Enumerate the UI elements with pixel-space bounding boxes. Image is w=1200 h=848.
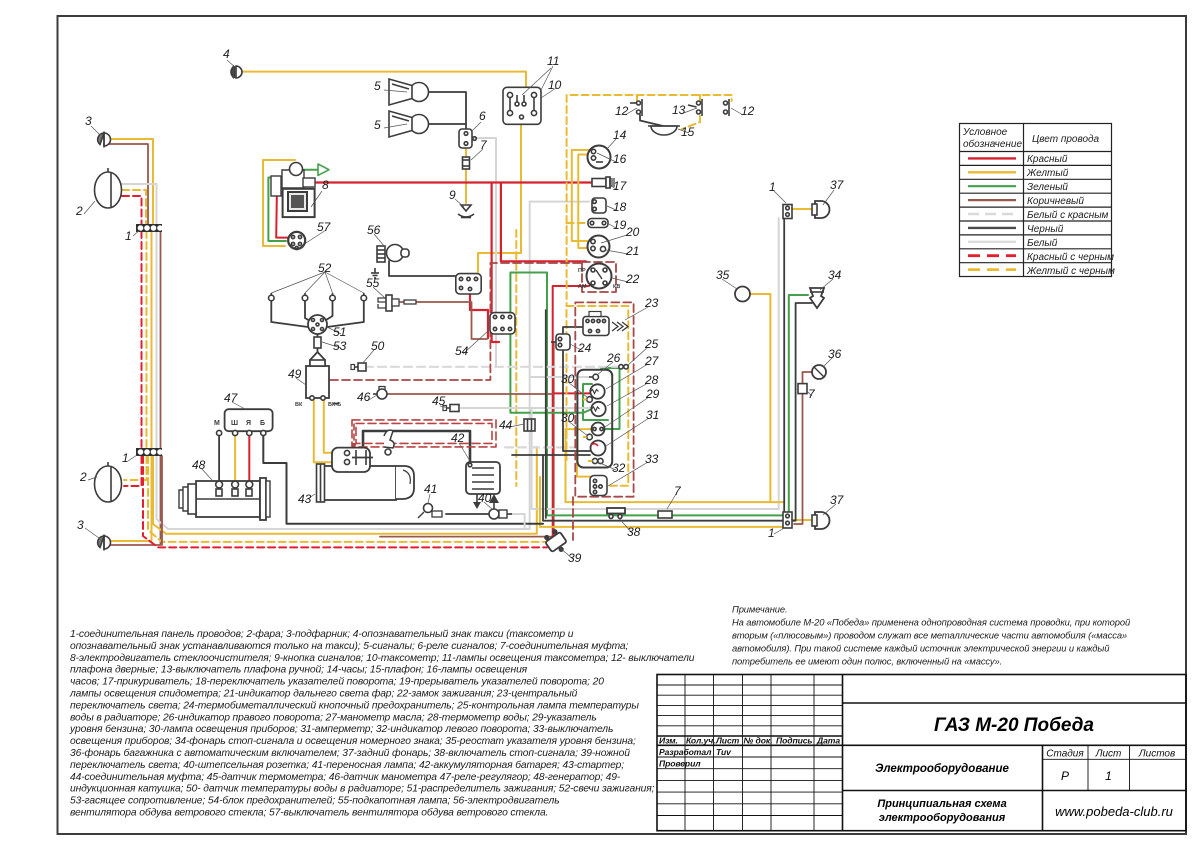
- svg-text:53-гасящее сопротивление; 54-б: 53-гасящее сопротивление; 54-блок предох…: [70, 795, 560, 807]
- legend sample: white: [968, 241, 1016, 243]
- wire: white riser to rear top connector 1: [532, 218, 779, 509]
- svg-text:21: 21: [625, 244, 639, 258]
- wire: yellow from lamp 4 to taximeter 10: [240, 72, 526, 88]
- svg-text:3: 3: [85, 114, 92, 128]
- svg-text:Красный: Красный: [1027, 154, 1068, 165]
- svg-text:Цвет провода: Цвет провода: [1032, 134, 1100, 145]
- clock 14 with lamps 16: [588, 146, 611, 169]
- wire: green arrow from wiper motor 8: [303, 169, 318, 171]
- wire: black from rear top connector 1 down to rear bottom connector: [783, 219, 785, 511]
- svg-text:33: 33: [645, 452, 659, 466]
- wire: white-red dash from water sender 50 to lamp 25: [365, 366, 619, 368]
- wire: yellow-dash bottom loom to foot switch 39: [148, 456, 545, 542]
- water temp gauge 28: [591, 402, 605, 416]
- wire: yellow-dash connector 1 to lower headlamp 2: [124, 456, 147, 480]
- svg-text:12: 12: [615, 104, 629, 118]
- headlamp 2 top: [95, 168, 122, 208]
- svg-text:переключатель света; 40-штепсе: переключатель света; 40-штепсельная розе…: [70, 759, 624, 771]
- svg-text:36-фонарь багажника с автомати: 36-фонарь багажника с автоматическим вкл…: [70, 747, 630, 759]
- svg-text:26: 26: [606, 351, 621, 365]
- svg-text:Желтый с черным: Желтый с черным: [1026, 266, 1115, 277]
- svg-text:51: 51: [333, 325, 346, 339]
- parking lamp 3 bottom: [98, 535, 111, 551]
- svg-text:Примечание.: Примечание.: [732, 604, 788, 615]
- svg-text:Кол.уч.: Кол.уч.: [686, 736, 715, 746]
- wire: yellow wiper motor 8 loop to switch 57: [263, 160, 295, 246]
- svg-text:12: 12: [741, 104, 755, 118]
- svg-text:опознавательный знак устанавли: опознавательный знак устанавливаются тол…: [70, 640, 629, 652]
- legend sample: white-red dashed: [968, 213, 1016, 215]
- wire: red riser x491.6 to fuse block 54: [492, 183, 499, 343]
- svg-text:46: 46: [357, 390, 371, 404]
- svg-text:47: 47: [224, 391, 239, 405]
- svg-text:Принципиальная схема: Принципиальная схема: [877, 798, 1006, 810]
- svg-text:переключатель света; 24-термоб: переключатель света; 24-термобиметалличе…: [70, 699, 639, 711]
- svg-text:индукционная катушка; 50- датч: индукционная катушка; 50- датчик темпера…: [70, 784, 655, 795]
- svg-text:ГАЗ М-20 Победа: ГАЗ М-20 Победа: [934, 715, 1094, 736]
- wire: yellow from fuel rheostat 35 down to rear loom: [750, 294, 770, 502]
- svg-text:49: 49: [288, 367, 302, 381]
- instrument cluster body: [577, 370, 612, 468]
- speedometer lamps 20 21: [588, 236, 610, 258]
- wire: white from relay 6 to turn switch 18: [473, 138, 496, 367]
- wire: black from fuse 24 to ammeter 31: [563, 350, 590, 451]
- panel light switch 33: [590, 476, 607, 496]
- svg-text:37: 37: [830, 493, 845, 507]
- svg-text:38: 38: [627, 525, 641, 539]
- wire: white headlamp 2 to connector 1: [122, 184, 157, 225]
- wire: green wiper motor 8 to switch 57: [268, 178, 287, 242]
- coupling 44: [524, 419, 535, 431]
- legend sample: red-black dashed: [968, 254, 1016, 257]
- parking lamp 3 top: [98, 132, 111, 148]
- regulator 47: [214, 409, 273, 435]
- wire: yellow relay 6 to fuse 7 to button 9: [465, 146, 467, 158]
- wire: yellow fuse 7 to horn button 9: [465, 168, 467, 203]
- wire: green from fuse block 54 bottom to gauges: [510, 334, 592, 413]
- legend table: wire colour legend: [960, 124, 1116, 278]
- foot switch 39: [542, 527, 570, 556]
- svg-text:43: 43: [298, 492, 312, 506]
- wire: enclosure dash instrument panel: [575, 302, 633, 496]
- wire: yellow coil 49 VKB to starter solenoid: [324, 399, 344, 453]
- svg-text:Изм.: Изм.: [659, 736, 678, 746]
- svg-text:15: 15: [681, 125, 695, 139]
- svg-text:ПР: ПР: [578, 268, 586, 274]
- wire: black from regulator 47 B to chassis loom: [263, 434, 543, 524]
- wire: brown connector 1 to lower parking lamp 3: [109, 456, 161, 545]
- svg-text:16: 16: [613, 152, 627, 166]
- wire: yellow lower loom to rear connector 1: [540, 477, 784, 527]
- wire: yellow coil 49 to starter solenoid: [314, 399, 344, 462]
- svg-text:1: 1: [769, 180, 776, 194]
- svg-text:электрооборудования: электрооборудования: [879, 812, 1006, 824]
- svg-text:50: 50: [371, 339, 385, 353]
- svg-text:30: 30: [561, 411, 575, 425]
- svg-text:41: 41: [424, 482, 437, 496]
- wire: white riser to turn switch 18: [530, 201, 589, 203]
- svg-text:Черный: Черный: [1027, 224, 1064, 235]
- ground arrow at battery 42: [473, 494, 481, 509]
- wire: brown fuse 7 to rear connector 1: [794, 393, 803, 524]
- dome lamp 15: [648, 126, 680, 135]
- tail lamp 37 bottom: [812, 512, 830, 529]
- stop switch 38: [607, 508, 625, 519]
- svg-text:56: 56: [367, 223, 381, 237]
- turn lamp 32: [588, 458, 603, 463]
- svg-text:13: 13: [672, 103, 686, 117]
- stop lamp 34: [810, 288, 824, 308]
- ammeter 31: [591, 441, 606, 456]
- svg-text:55: 55: [366, 276, 380, 290]
- tail lamp 37 top: [812, 201, 830, 218]
- portable lamp 41: [418, 504, 442, 519]
- generator 48: [179, 478, 270, 520]
- svg-text:часов; 17-прикуриватель; 18-пе: часов; 17-прикуриватель; 18-переключател…: [70, 677, 604, 688]
- svg-text:44-соединительная муфта; 45-да: 44-соединительная муфта; 45-датчик термо…: [70, 771, 621, 783]
- svg-text:Желтый: Желтый: [1026, 168, 1069, 179]
- legend sample: red: [968, 157, 1016, 159]
- svg-text:№ док.: № док.: [744, 736, 773, 746]
- starter 43: [317, 430, 415, 502]
- temp sender 45: [443, 405, 459, 412]
- fuel rheostat 35: [735, 287, 750, 302]
- svg-text:5: 5: [374, 79, 381, 93]
- wire: yellow-dash from flasher 19 down to switch 23 box: [566, 226, 568, 306]
- water temp sender 50: [351, 363, 366, 371]
- wire: yellow-dash headlamp 2 to connector 1: [122, 190, 146, 225]
- wire: left loom yellow-dash vertical: [146, 231, 148, 450]
- fuse 7: horn fuse: [463, 157, 470, 169]
- svg-text:18: 18: [613, 200, 627, 214]
- hood lamp 55: [378, 295, 416, 311]
- oil gauge 27: [590, 384, 604, 398]
- wire: yellow-dash roof loom to door switches 12 13: [567, 95, 732, 223]
- svg-text:освещения приборов; 34-фонарь: освещения приборов; 34-фонарь стоп-сигна…: [70, 735, 636, 747]
- wire: black fan motor 56 to junction box 54u: [389, 261, 456, 276]
- svg-text:Зеленый: Зеленый: [1027, 182, 1068, 193]
- fuse 7 on stop lamp line: [658, 511, 672, 518]
- ignition coil 49: [295, 360, 341, 408]
- svg-text:57: 57: [317, 220, 332, 234]
- wire: yellow-dash riser x516.3: [515, 230, 517, 486]
- svg-text:1: 1: [1105, 769, 1112, 783]
- svg-text:Я: Я: [246, 420, 251, 427]
- wire: red-dash engine compartment box outer: [352, 420, 496, 447]
- svg-text:52: 52: [318, 261, 332, 275]
- wire: red-dash drop into starter solenoid: [353, 424, 355, 444]
- wire: red-dash headlamp 2 to connector 1: [122, 196, 142, 225]
- switch 57: wiper switch: [288, 232, 305, 250]
- light switch 23: [583, 312, 628, 336]
- svg-text:8: 8: [322, 178, 329, 192]
- wire: white bottom loom to riser: [157, 202, 530, 529]
- door switch 12 left: [630, 99, 642, 116]
- svg-text:40: 40: [478, 491, 492, 505]
- taximeter 10 with lamps 11: [503, 87, 541, 124]
- parts list text: [69, 628, 695, 819]
- ignition switch 22: [578, 264, 620, 291]
- wire: yellow-dash drops to switches 12 13: [636, 95, 638, 101]
- wire: yellow bracket at switch 33: [577, 429, 592, 477]
- wire: black portable lamp 41 to socket 40: [446, 513, 488, 515]
- svg-text:Стадия: Стадия: [1046, 749, 1084, 760]
- spark plugs 52: [269, 293, 367, 301]
- wiper motor 8: [271, 163, 315, 218]
- legend sample: brown: [968, 199, 1016, 201]
- distributor 51: [308, 315, 327, 334]
- wire: red main from wiper motor 8 to lighter 17: [310, 181, 591, 183]
- svg-text:воды в радиаторе; 26-индикатор: воды в радиаторе; 26-индикатор правого п…: [70, 712, 597, 723]
- wire: green loop fuel gauge 29 to lamp 26: [601, 368, 620, 429]
- svg-text:29: 29: [645, 387, 660, 401]
- horn 5 upper: [389, 79, 429, 105]
- wire: black ammeter 31 to stop lamp 34 via loom: [512, 454, 590, 456]
- svg-text:20: 20: [625, 225, 640, 239]
- svg-text:www.pobeda-club.ru: www.pobeda-club.ru: [1055, 804, 1173, 819]
- wire: yellow clock 14 feed lower to beam lamp 21: [578, 155, 589, 249]
- wire: yellow-dash stub to turn flasher 19: [567, 222, 587, 224]
- wire: red-dash bottom loom to foot switch 39: [143, 456, 547, 547]
- junction box 54u: [456, 274, 481, 294]
- wire: left loom brown vertical: [160, 231, 162, 450]
- svg-text:31: 31: [646, 408, 659, 422]
- svg-text:32: 32: [612, 461, 626, 475]
- svg-text:4: 4: [223, 47, 230, 61]
- svg-text:Лист: Лист: [1095, 749, 1122, 760]
- connector 25: [619, 365, 628, 369]
- button 9: horn button: [458, 205, 474, 218]
- svg-text:Листов: Листов: [1138, 749, 1175, 760]
- wire: white from socket 40 into loom: [510, 514, 525, 529]
- svg-text:Электрооборудование: Электрооборудование: [875, 763, 1009, 775]
- svg-text:2: 2: [75, 204, 83, 218]
- svg-text:24: 24: [577, 341, 592, 355]
- socket 40: [489, 494, 512, 519]
- wire: green bracket loop at oil gauge 27: [583, 384, 608, 420]
- svg-text:Проверил: Проверил: [659, 759, 701, 769]
- wire: black battery 42 to starter 43: [363, 431, 470, 461]
- svg-text:28: 28: [644, 373, 659, 387]
- label 52 leader fan: [271, 272, 325, 293]
- svg-text:34: 34: [828, 268, 842, 282]
- svg-text:9: 9: [449, 188, 456, 202]
- wire: brown from hood lamp 55 to fuse block 54: [399, 302, 487, 339]
- svg-text:53: 53: [333, 339, 347, 353]
- svg-text:Б: Б: [260, 420, 265, 427]
- svg-text:потребитель ее имеют один полю: потребитель ее имеют один полюс, включен…: [732, 656, 1002, 667]
- svg-text:36: 36: [828, 347, 842, 361]
- svg-text:обозначение: обозначение: [963, 138, 1022, 150]
- lamp 4: taxi sign: [231, 66, 242, 78]
- legend sample: yellow-black dashed: [968, 268, 1016, 271]
- wire: white from heat sender 45 to gauge 28: [461, 407, 592, 409]
- svg-text:Белый с красным: Белый с красным: [1027, 210, 1109, 221]
- svg-text:На автомобиле М-20 «Победа» пр: На автомобиле М-20 «Победа» применена од…: [732, 617, 1131, 628]
- fuse 7 rear: [798, 384, 807, 394]
- svg-text:11: 11: [547, 54, 559, 68]
- wire: yellow clock 14 feed upper: [572, 150, 589, 241]
- resistor 53: [314, 337, 321, 348]
- svg-text:Разработал: Разработал: [659, 747, 712, 757]
- legend sample: green: [968, 185, 1016, 187]
- svg-text:1: 1: [768, 526, 775, 540]
- wire: brown trunk lamp 36 to rear connector: [803, 372, 813, 384]
- svg-text:Коричневый: Коричневый: [1027, 196, 1084, 207]
- wire: red from junction 54u down to fuse block 54: [470, 294, 488, 338]
- wire: yellow connector 1 to lower parking lamp 3: [109, 456, 152, 541]
- svg-text:44: 44: [499, 418, 513, 432]
- wire: brown from oil sender 46 to riser: [387, 393, 553, 395]
- svg-text:22: 22: [625, 272, 640, 286]
- connector 1 top left: junction panel: [136, 224, 162, 232]
- svg-text:уровня бензина; 30-лампа освещ: уровня бензина; 30-лампа освещения прибо…: [69, 723, 613, 735]
- door switch 12 right: [724, 99, 730, 116]
- svg-text:5: 5: [374, 118, 381, 132]
- turn switch 18: [592, 198, 606, 213]
- battery 42: [466, 462, 500, 494]
- svg-text:39: 39: [568, 551, 582, 565]
- wire: red branch to oil gauge 27: [553, 392, 591, 394]
- panel lamp 30 upper: [583, 397, 592, 403]
- svg-text:30: 30: [561, 372, 575, 386]
- svg-text:автомобиля). При такой системе: автомобиля). При такой системе каждый ис…: [732, 643, 1110, 654]
- wire: red-dash engine harness to fuse block: [330, 263, 582, 380]
- svg-text:М: М: [214, 420, 220, 427]
- note text: [732, 604, 1131, 667]
- wire: brown bottom loom to foot switch 39: [380, 536, 554, 538]
- svg-text:АМ: АМ: [578, 284, 587, 290]
- fuse block 54: [490, 313, 515, 334]
- wire: yellow bottom loom to riser x536.8: [153, 447, 537, 534]
- wire: yellow riser to rear lamp loom: [566, 429, 785, 502]
- svg-text:Лист: Лист: [715, 736, 740, 746]
- connector 1 rear top: [783, 205, 792, 219]
- wire: yellow regulator 47 Sh to generator 48: [234, 434, 236, 480]
- wire: black door switch 12 to dome lamp 15: [640, 115, 663, 126]
- wire: red regulator 47 Ya to generator 48: [248, 434, 250, 480]
- svg-text:Ш: Ш: [231, 420, 238, 427]
- svg-text:35: 35: [716, 268, 730, 282]
- wire: black regulator 47 M to generator 48: [218, 434, 220, 480]
- wire: red wiper motor 8 to switch 57: [276, 184, 289, 238]
- wire: yellow connector 1 to tail lamp 37 bottom: [793, 519, 812, 521]
- wire: yellow from taximeter 10 down to junction box 54u: [478, 124, 521, 272]
- svg-text:плафона дверные; 13-выключател: плафона дверные; 13-выключатель плафона …: [70, 664, 528, 676]
- wire: left loom white vertical: [156, 231, 158, 450]
- svg-text:3: 3: [77, 518, 84, 532]
- wire: yellow-dash box around switches 23-33: [567, 306, 629, 486]
- wire: left loom red-dash vertical: [141, 231, 143, 450]
- svg-text:Красный с черным: Красный с черным: [1027, 252, 1114, 263]
- svg-text:1: 1: [122, 451, 129, 465]
- wire: red-dash engine compartment box inner: [356, 423, 492, 443]
- svg-text:17: 17: [613, 179, 628, 193]
- fan motor 56: [377, 245, 409, 263]
- wire: left loom yellow vertical: [151, 231, 153, 450]
- svg-text:Tuv: Tuv: [716, 747, 732, 757]
- hand switch 13: [688, 99, 702, 116]
- fuse 24: bimetallic breaker: [551, 334, 570, 350]
- svg-text:45: 45: [432, 394, 446, 408]
- panel lamp 30 lower: [583, 434, 592, 440]
- wire: black switch 23 to fuse 24: [563, 327, 584, 340]
- flasher 19: [588, 219, 608, 228]
- svg-text:Подпись: Подпись: [776, 736, 812, 746]
- fuel gauge 29: [592, 423, 605, 436]
- svg-text:лампы освещения спидометра; 21: лампы освещения спидометра; 21-индикатор…: [69, 688, 578, 700]
- svg-text:вентилятора обдува ветрового с: вентилятора обдува ветрового стекла; 57-…: [70, 807, 548, 819]
- wire: white stub to indicator lamp 26: [530, 376, 590, 378]
- svg-text:19: 19: [613, 218, 627, 232]
- wire: brown riser from fuse 24 to foot switch loom: [553, 342, 555, 537]
- wire: yellow from parking lamp 3 down to connector 1: [104, 139, 153, 225]
- wire: green from fuse block 54 up and right to rear loom: [510, 273, 808, 516]
- svg-text:вторым («плюсовым») проводом с: вторым («плюсовым») проводом служат все …: [732, 630, 1127, 641]
- lamp 26: [589, 374, 599, 380]
- svg-text:Дата: Дата: [816, 736, 840, 746]
- connector 1 rear bottom: [783, 512, 792, 528]
- svg-text:1: 1: [125, 229, 132, 243]
- headlamp 2 bottom: [95, 462, 122, 502]
- wire: yellow feed fuel gauge 29: [566, 428, 593, 430]
- wire: red-dash connector 1 to lower headlamp 2: [124, 456, 142, 486]
- wire: red from ignition 22 down riser x552.7 to oil gauge 27: [553, 286, 589, 540]
- svg-text:42: 42: [451, 431, 465, 445]
- wire: black horn 5 upper to relay 6: [428, 92, 466, 130]
- wire: spark plug leads to distributor 51: [271, 301, 364, 327]
- svg-text:10: 10: [548, 78, 562, 92]
- svg-text:14: 14: [613, 128, 627, 142]
- wire: yellow-dash switch 13 to dome lamp 15: [682, 116, 700, 129]
- svg-text:ВК: ВК: [295, 402, 303, 408]
- legend sample: yellow: [968, 171, 1016, 173]
- wire: black horn 5 lower to relay 6: [428, 123, 466, 125]
- relay 6: horn relay: [459, 129, 476, 148]
- svg-text:6: 6: [479, 109, 486, 123]
- svg-text:37: 37: [830, 178, 845, 192]
- svg-text:1-соединительная панель провод: 1-соединительная панель проводов; 2-фара…: [70, 628, 574, 640]
- title block: [657, 675, 1186, 831]
- svg-text:48: 48: [192, 458, 206, 472]
- svg-text:КВ: КВ: [613, 284, 620, 290]
- svg-text:Условное: Условное: [962, 127, 1008, 138]
- wire: brown from parking lamp 3 down to connector 1: [104, 144, 148, 225]
- legend sample: black: [968, 227, 1016, 229]
- svg-text:Р: Р: [1061, 769, 1069, 783]
- oil sender 46: [373, 387, 387, 400]
- lighter 17: [592, 177, 615, 189]
- svg-text:2: 2: [79, 470, 87, 484]
- svg-text:Белый: Белый: [1027, 238, 1058, 249]
- wire: yellow connector 1 to tail lamp 37 top: [791, 208, 812, 210]
- wire: enclosure dash drop to foot switch: [572, 497, 574, 540]
- wire: enclosure dash around ignition switch 22: [582, 262, 616, 292]
- wire: white-red dash into ammeter area: [505, 446, 577, 448]
- horn 5 lower: [389, 111, 429, 137]
- svg-text:25: 25: [644, 337, 659, 351]
- ground at fan motor 56: [371, 268, 379, 278]
- trunk lamp 36: [812, 365, 826, 379]
- svg-text:54: 54: [455, 344, 469, 358]
- wire: red riser x500.9 to ignition switch 22: [501, 183, 586, 262]
- svg-text:23: 23: [644, 296, 659, 310]
- wire: distributor 51 to resistor 53 to coil 49: [317, 333, 319, 337]
- svg-text:27: 27: [644, 354, 660, 368]
- connector 1 bottom left: [136, 448, 162, 456]
- svg-text:8-электродвигатель стеклоочист: 8-электродвигатель стеклоочистителя; 9-к…: [70, 653, 695, 664]
